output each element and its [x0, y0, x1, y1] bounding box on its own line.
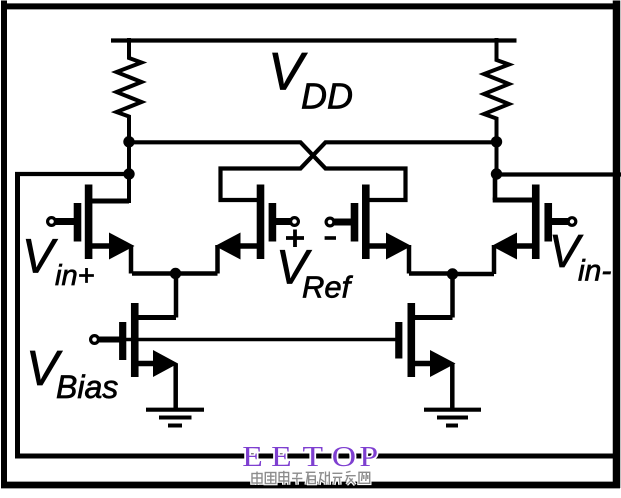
ground (right, under M6): [424, 410, 481, 426]
svg-text:in-: in-: [578, 255, 611, 288]
transistor M1: [48, 185, 176, 274]
resistor R2: [484, 38, 509, 177]
node X1 dots: [123, 136, 134, 180]
svg-text:T: T: [303, 440, 324, 472]
transistor M6: [399, 272, 456, 411]
svg-text:E: E: [242, 440, 263, 472]
node S1 dot (M1/M2 sources): [170, 268, 181, 279]
wire: bottom rail to frame: [15, 454, 618, 459]
label VRef: [276, 242, 354, 305]
ground (left, under M5): [146, 410, 204, 426]
wire: right output to frame: [495, 172, 621, 176]
resistor R1: [117, 38, 142, 203]
svg-text:Ref: Ref: [302, 270, 354, 305]
label Vin+: [22, 231, 95, 293]
svg-text:Bias: Bias: [56, 369, 118, 405]
node X2 dots: [491, 136, 502, 180]
svg-text:DD: DD: [301, 76, 353, 117]
wire: VDD rail: [111, 38, 517, 42]
svg-text:P: P: [359, 440, 378, 472]
transistor M5: [91, 272, 178, 412]
label VBias: [26, 342, 118, 405]
svg-text:V: V: [22, 231, 58, 284]
wire: cross-couple B (M2 drain to node X2): [221, 142, 497, 200]
transistor M3: [326, 185, 452, 274]
node S2 dot (M3/M4 sources): [447, 268, 458, 279]
transistor M4: [452, 172, 576, 274]
minus mark (VRef -): [325, 236, 336, 240]
svg-text:E: E: [271, 440, 292, 472]
watermark EETOP: [242, 440, 378, 472]
plus mark (VRef +): [286, 230, 304, 248]
wire: VBias gate interconnect: [99, 338, 396, 341]
svg-text:O: O: [332, 440, 356, 472]
transistor M2: [175, 185, 298, 274]
label Vin-: [549, 225, 611, 288]
label VDD: [268, 43, 353, 117]
wire: cross-couple A (node X1 to M3 drain): [129, 142, 406, 200]
wire: left output feedback (node X1 to frame): [15, 172, 131, 459]
svg-text:in+: in+: [55, 260, 95, 292]
